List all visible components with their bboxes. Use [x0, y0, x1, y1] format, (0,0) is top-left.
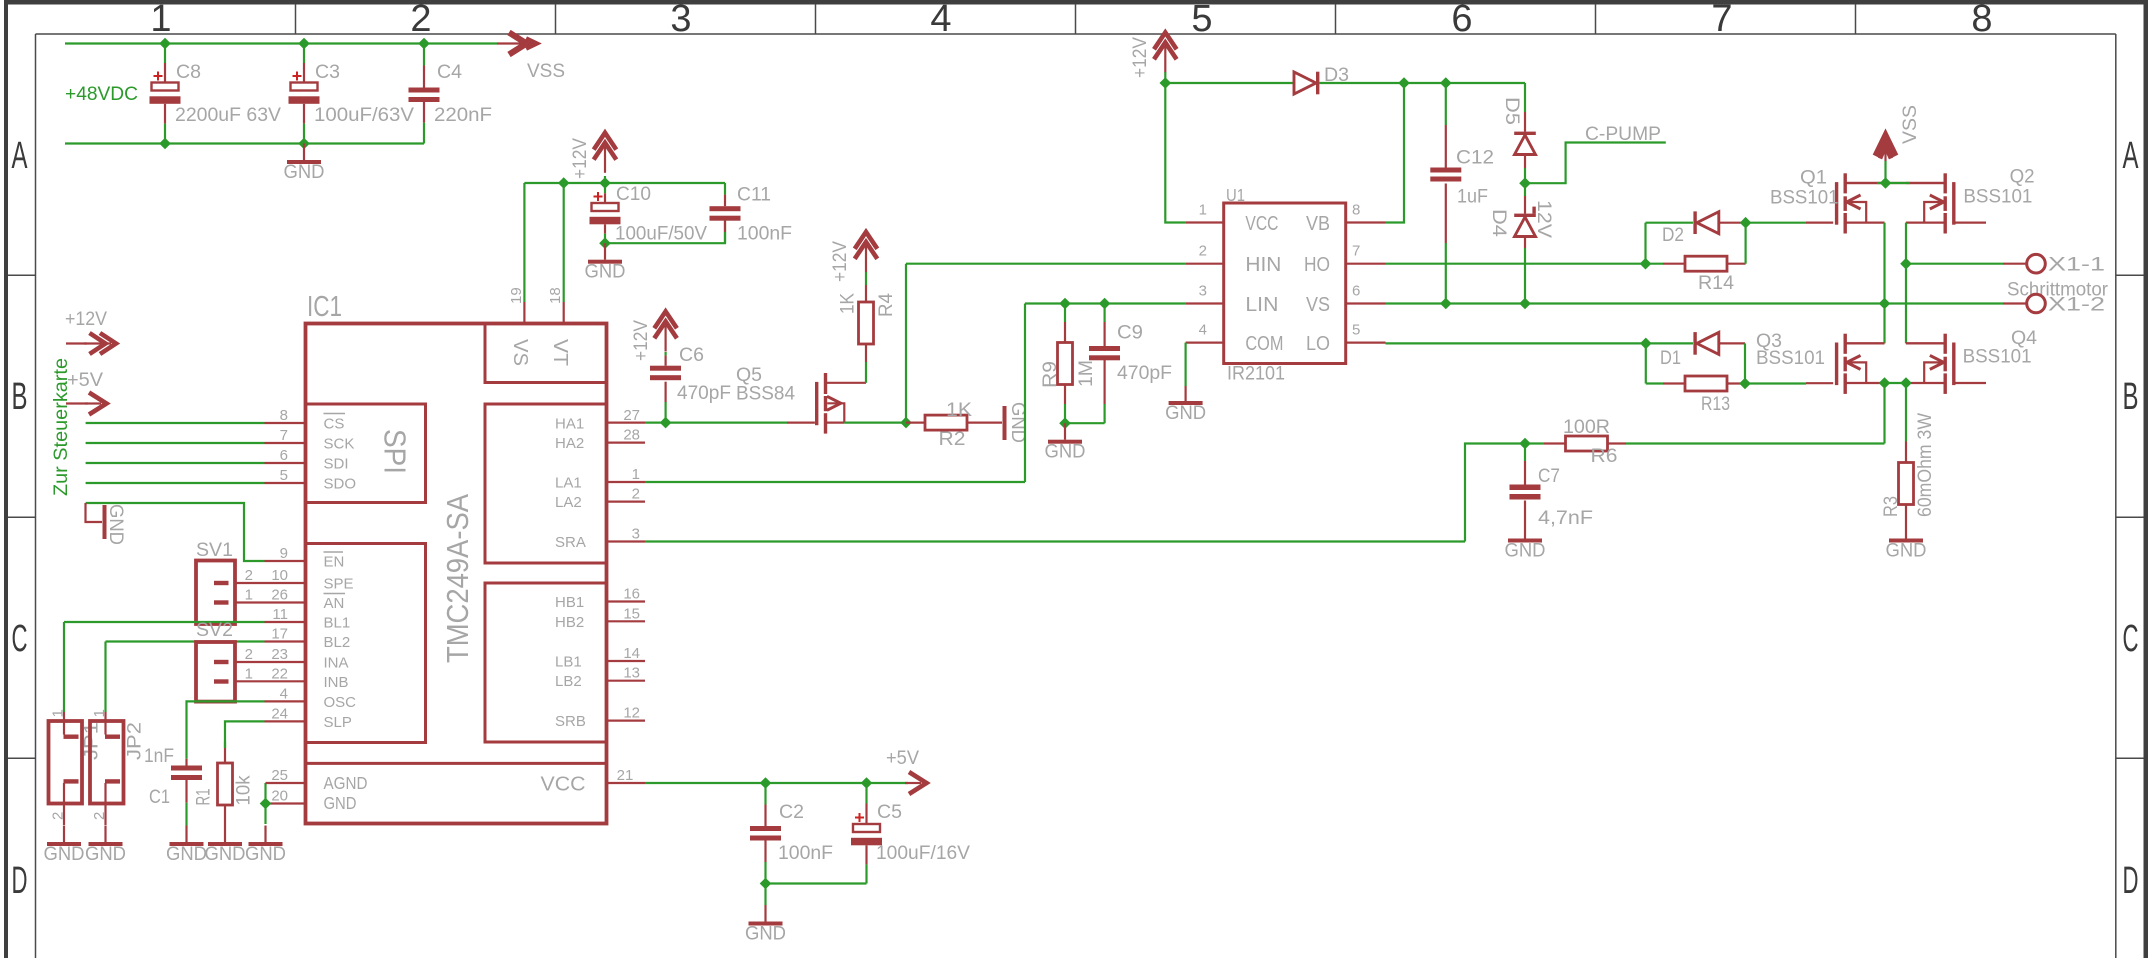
svg-text:D4: D4 [1488, 209, 1510, 237]
svg-text:2: 2 [50, 812, 67, 820]
svg-text:23: 23 [271, 646, 288, 663]
svg-text:2200uF 63V: 2200uF 63V [175, 104, 281, 126]
wire Q5 source to R2 [844, 422, 906, 424]
capacitor C3 [303, 44, 305, 64]
wire SLP route [225, 721, 265, 748]
svg-text:24: 24 [271, 705, 288, 722]
pin EN stub [265, 560, 306, 562]
svg-text:GND: GND [745, 923, 786, 945]
wire COM to GND [1184, 343, 1186, 386]
svg-text:22: 22 [271, 665, 288, 682]
svg-text:R13: R13 [1701, 393, 1730, 415]
junction C2 bottom [760, 878, 772, 890]
svg-text:3: 3 [632, 526, 640, 543]
wire C2-C5 bottom [766, 882, 867, 884]
pin HB1 stub [607, 600, 646, 602]
svg-text:+5V: +5V [67, 369, 103, 391]
svg-text:TMC249A-SA: TMC249A-SA [440, 494, 475, 663]
svg-text:4: 4 [280, 685, 288, 702]
svg-text:HA2: HA2 [555, 435, 584, 452]
wire R3 top [1905, 383, 1907, 442]
svg-text:1K: 1K [946, 399, 972, 421]
svg-text:+12V: +12V [829, 241, 851, 282]
svg-text:GND: GND [205, 843, 246, 865]
wire INA [237, 661, 306, 663]
diode D3 [1294, 72, 1316, 94]
pin SDI stub [265, 462, 306, 464]
wire INB [237, 680, 306, 682]
ground GND rotated (R2) [1003, 406, 1007, 440]
capacitor C7 [1524, 444, 1526, 462]
svg-text:BSS101: BSS101 [1963, 186, 2032, 208]
svg-text:28: 28 [623, 427, 640, 444]
svg-text:SRA: SRA [555, 534, 586, 551]
svg-text:INA: INA [324, 655, 349, 672]
svg-text:SV1: SV1 [196, 539, 233, 561]
svg-text:+12V: +12V [569, 138, 591, 179]
resistor R13 [1646, 382, 1663, 384]
svg-text:7: 7 [1711, 0, 1732, 40]
ground GND rotated (left) [86, 503, 103, 522]
wire SCK signal [86, 442, 265, 444]
resistor R1 [224, 742, 226, 749]
capacitor C6 (to HA1) [664, 352, 666, 355]
wire D2 right link [1719, 222, 1746, 224]
svg-text:R6: R6 [1591, 445, 1618, 467]
svg-text:+12V: +12V [630, 320, 652, 361]
svg-text:7: 7 [280, 427, 288, 444]
junction VSS node [1880, 177, 1892, 189]
pin LO stub [1346, 342, 1386, 344]
svg-text:+48VDC: +48VDC [65, 83, 138, 105]
svg-text:B: B [2123, 376, 2139, 418]
wire SDO signal [86, 482, 265, 484]
pin LA2 stub [607, 501, 646, 503]
junction C12 bottom [1440, 298, 1452, 310]
ground GND below COM [1184, 386, 1186, 401]
svg-text:VB: VB [1306, 213, 1330, 235]
svg-text:BL2: BL2 [324, 634, 351, 651]
svg-text:100nF: 100nF [778, 842, 833, 864]
svg-text:LB1: LB1 [555, 654, 582, 671]
junction R6 node [1519, 438, 1531, 450]
junction R9 bottom [1059, 417, 1071, 429]
connector SV1 box [196, 561, 235, 625]
svg-text:2: 2 [1199, 243, 1207, 260]
wire bottom rail (GND bus) [65, 142, 424, 144]
svg-text:220nF: 220nF [434, 104, 492, 126]
svg-text:8: 8 [280, 407, 288, 424]
pin 18 stub [563, 302, 565, 324]
svg-text:B: B [12, 376, 28, 418]
wire SRA long [645, 540, 1465, 542]
svg-text:+12V: +12V [1129, 37, 1151, 78]
transistor Q1 BSS101 [1835, 182, 1838, 225]
svg-text:100R: 100R [1563, 416, 1610, 438]
capacitor C12 [1445, 83, 1447, 125]
wire to Q1 gate [1746, 222, 1806, 224]
svg-text:12: 12 [623, 705, 640, 722]
svg-text:GND: GND [1505, 540, 1546, 562]
power +5V chevron [905, 782, 921, 784]
connector SV2 box [196, 642, 235, 702]
SV1 pin dash 1 [214, 581, 229, 585]
power +12V arrow above R4 [865, 244, 867, 272]
wire SDI signal [86, 462, 265, 464]
svg-text:2: 2 [245, 567, 253, 584]
wire Q2 source down [1905, 223, 1907, 264]
svg-text:U1: U1 [1226, 185, 1245, 205]
pin LIN stub [1186, 302, 1224, 304]
capacitor C2 [764, 783, 766, 805]
junction X1-1 node [1900, 258, 1912, 270]
svg-text:11: 11 [272, 606, 288, 623]
capacitor C5 [865, 783, 867, 804]
wire to D5 [1524, 83, 1526, 112]
ground GND below R9 [1064, 423, 1066, 440]
pin HIN stub [1186, 263, 1224, 265]
junction VT wire [558, 177, 570, 189]
svg-text:GND: GND [166, 843, 207, 865]
svg-text:26: 26 [271, 587, 288, 604]
svg-text:GND: GND [1886, 540, 1927, 562]
svg-text:R1: R1 [193, 789, 215, 806]
junction C3 bottom [298, 138, 310, 150]
diode D4 zener (points up) [1524, 183, 1526, 196]
capacitor C11 [724, 183, 726, 195]
svg-text:VSS: VSS [527, 60, 565, 82]
svg-text:1: 1 [150, 0, 171, 40]
svg-text:+12V: +12V [65, 308, 107, 330]
junction C9 top [1099, 298, 1111, 310]
svg-text:60mOhm 3W: 60mOhm 3W [1914, 412, 1936, 517]
pin HB2 stub [607, 620, 646, 622]
svg-text:4: 4 [1199, 321, 1207, 338]
svg-text:OSC: OSC [324, 694, 357, 711]
SV1 pin dash 2 [214, 600, 229, 604]
svg-text:GND: GND [44, 843, 85, 865]
svg-text:10: 10 [271, 567, 288, 584]
wire AGND/GND route [264, 783, 266, 824]
svg-text:LO: LO [1306, 333, 1330, 355]
svg-text:JP2: JP2 [124, 722, 146, 760]
connector JP1 box and pins [49, 721, 83, 804]
svg-text:1: 1 [91, 709, 108, 717]
svg-text:6: 6 [280, 447, 288, 464]
svg-text:2: 2 [245, 646, 253, 663]
diode D2 (points left) [1697, 212, 1719, 234]
svg-text:18: 18 [547, 287, 564, 304]
net C-PUMP wire [1525, 143, 1666, 184]
pin VCC stub (U1) [1186, 221, 1224, 223]
wire pin19 drop [523, 183, 525, 302]
svg-text:D5: D5 [1501, 97, 1523, 125]
wire BL2 route [104, 642, 106, 713]
wire R4 top [865, 272, 867, 285]
IC U IC1 TMC249A-SA outline and sections [306, 324, 607, 824]
svg-text:14: 14 [623, 645, 640, 662]
junction C8 top [159, 38, 171, 50]
svg-text:C: C [12, 618, 28, 660]
svg-text:SV2: SV2 [196, 619, 233, 641]
wire SPE [237, 582, 306, 584]
junction D1 left [1640, 338, 1652, 350]
svg-text:C-PUMP: C-PUMP [1585, 123, 1661, 145]
svg-text:+5V: +5V [886, 747, 919, 769]
wire HO to R14 [1386, 263, 1646, 265]
svg-text:1nF: 1nF [144, 745, 174, 767]
power +12V arrow (U1) [1164, 45, 1166, 73]
wire VS long (X1-2) [1386, 302, 2004, 304]
IC U1 IR2101 box [1224, 203, 1346, 364]
svg-text:HB1: HB1 [555, 594, 584, 611]
net label VSS arrow (top rail) [509, 33, 527, 55]
junction C3 top [298, 38, 310, 50]
pin VCC stub [607, 782, 646, 784]
svg-text:BSS101: BSS101 [1963, 346, 2032, 368]
svg-text:GND: GND [284, 161, 325, 183]
ground GND below C10 [604, 243, 606, 260]
wire HIN riser [905, 264, 907, 423]
svg-text:2: 2 [410, 0, 431, 40]
svg-text:3: 3 [1199, 282, 1207, 299]
svg-text:VS: VS [1306, 294, 1330, 316]
junction X1-2 node [1879, 298, 1891, 310]
wire VCC to +5V [645, 782, 908, 784]
transistor Q3 BSS101 [1835, 343, 1838, 386]
svg-text:R4: R4 [875, 293, 897, 317]
wire AN [237, 601, 306, 603]
svg-text:SCK: SCK [324, 436, 355, 453]
junction C2 top [760, 777, 772, 789]
svg-text:IR2101: IR2101 [1227, 363, 1285, 385]
svg-text:25: 25 [271, 767, 288, 784]
svg-text:C8: C8 [176, 61, 201, 83]
wire X1-2 pin stub [2003, 302, 2026, 304]
svg-text:10k: 10k [233, 775, 255, 805]
svg-text:1: 1 [1199, 201, 1207, 218]
svg-text:13: 13 [623, 665, 640, 682]
svg-text:GND: GND [1045, 441, 1086, 463]
svg-text:LA1: LA1 [555, 475, 582, 492]
svg-text:GND: GND [85, 843, 126, 865]
svg-text:1: 1 [50, 709, 67, 717]
pin LA1 stub [607, 481, 646, 483]
svg-text:C7: C7 [1538, 465, 1560, 487]
junction VB riser [1398, 77, 1410, 89]
ground GND below C2 [764, 884, 766, 906]
junction C12 top [1440, 77, 1452, 89]
pin SRB stub [607, 719, 646, 721]
power +5V chevron (left) [66, 402, 88, 404]
wire BL1 route [63, 622, 65, 712]
svg-text:C9: C9 [1117, 322, 1143, 344]
svg-text:BSS101: BSS101 [1756, 347, 1825, 369]
svg-text:100uF/63V: 100uF/63V [314, 104, 414, 126]
svg-text:100uF/16V: 100uF/16V [876, 842, 970, 864]
transistor Q4 BSS101 [1952, 343, 1955, 386]
wire X1-2 riser to Q3 [1883, 304, 1885, 344]
svg-text:5: 5 [280, 467, 288, 484]
overbar EN [324, 551, 344, 553]
svg-text:VCC: VCC [541, 774, 586, 796]
svg-text:R14: R14 [1698, 272, 1734, 294]
sheet frame with column and row labels [4, 0, 2148, 5]
svg-text:5: 5 [1191, 0, 1212, 40]
svg-text:1M: 1M [1075, 360, 1097, 387]
svg-text:2: 2 [632, 486, 640, 503]
transistor Q2 BSS101 [1952, 182, 1955, 225]
wire R9 top stub [1064, 304, 1066, 323]
junction D4 bottom [1519, 298, 1531, 310]
svg-text:GND: GND [105, 504, 127, 545]
wire Q4 gate stub [1954, 382, 1986, 384]
ground GND below R3 [1905, 522, 1907, 539]
capacitor C1 [185, 752, 187, 759]
transistor Q5 BSS84 [815, 382, 818, 425]
ground GND below C1 [185, 826, 187, 843]
junction C8 bottom [159, 138, 171, 150]
pin VS stub (U1) [1346, 302, 1386, 304]
svg-text:LA2: LA2 [555, 494, 582, 511]
svg-text:C11: C11 [737, 184, 771, 206]
wire LIN segment [1025, 302, 1186, 304]
svg-text:IC1: IC1 [307, 291, 342, 323]
junction C10 bottom [599, 237, 611, 249]
wire +12V to C10/C11 top rail [524, 176, 605, 183]
svg-text:SPI: SPI [378, 429, 413, 474]
svg-text:27: 27 [623, 407, 640, 424]
svg-text:C10: C10 [616, 183, 651, 205]
pin SCK stub [265, 442, 306, 444]
junction R2 node [900, 417, 912, 429]
wire D2 anode-side [1646, 222, 1694, 224]
svg-text:4,7nF: 4,7nF [1538, 507, 1593, 529]
svg-text:7: 7 [1352, 243, 1360, 260]
connector X1-2 circle [2027, 294, 2046, 313]
junction C4 top [418, 38, 430, 50]
wire HA1 to Q5 gate [645, 422, 787, 424]
wire C10 top rail right [605, 182, 725, 184]
svg-text:EN: EN [324, 554, 345, 571]
pin LB1 stub [607, 660, 646, 662]
ground GND below JP2 [104, 826, 106, 843]
svg-text:HA1: HA1 [555, 416, 584, 433]
wire pin18 drop [563, 183, 565, 302]
junction C-PUMP node [1519, 177, 1531, 189]
svg-text:8: 8 [1352, 201, 1360, 218]
SV2 pin dash 1 [214, 660, 229, 664]
pin LB2 stub [607, 680, 646, 682]
capacitor C4 [423, 44, 425, 66]
svg-text:C3: C3 [315, 61, 340, 83]
wire VB riser [1386, 83, 1405, 223]
svg-text:1: 1 [632, 466, 640, 483]
svg-text:LB2: LB2 [555, 673, 582, 690]
wire D1 right link [1719, 342, 1745, 344]
junction R9 top [1059, 298, 1071, 310]
svg-text:SPE: SPE [324, 576, 354, 593]
svg-text:C12: C12 [1456, 147, 1494, 169]
wire LO to D1 [1386, 342, 1694, 344]
svg-text:HB2: HB2 [555, 614, 584, 631]
svg-text:D2: D2 [1662, 224, 1684, 246]
resistor R4 [859, 302, 874, 344]
svg-text:X1-1: X1-1 [2048, 254, 2105, 276]
wire R3 bottom [1905, 505, 1907, 522]
pin HA2 stub [607, 442, 646, 444]
svg-text:9: 9 [280, 545, 288, 562]
svg-text:C4: C4 [437, 61, 462, 83]
wire C10-C11 bottom [605, 221, 725, 244]
connector JP2 box and pins [90, 721, 124, 804]
svg-text:C: C [2123, 618, 2139, 660]
pin HA1 stub [607, 422, 646, 424]
svg-text:R3: R3 [1880, 496, 1902, 517]
svg-text:100uF/50V: 100uF/50V [615, 223, 707, 245]
diode D5 (points up) [1524, 112, 1526, 132]
svg-text:VS: VS [509, 339, 531, 366]
svg-text:Q1: Q1 [1800, 167, 1827, 189]
svg-text:16: 16 [623, 586, 640, 603]
pin SRA stub [607, 540, 646, 542]
wire EN route [86, 503, 265, 561]
svg-text:5: 5 [1352, 321, 1360, 338]
svg-text:VSS: VSS [1899, 105, 1921, 144]
svg-text:C1: C1 [149, 786, 170, 808]
svg-text:20: 20 [271, 788, 288, 805]
svg-text:19: 19 [508, 287, 525, 304]
wire LA1 to LIN riser [645, 481, 1025, 483]
junction Q3 gate node [1739, 378, 1751, 390]
svg-text:D: D [12, 860, 28, 902]
svg-text:D: D [2123, 860, 2139, 902]
resistor R14 [1646, 263, 1664, 265]
svg-text:1: 1 [245, 587, 253, 604]
junction GND pin [260, 798, 272, 810]
svg-text:BSS101: BSS101 [1770, 187, 1839, 209]
svg-text:GND: GND [585, 261, 626, 283]
wire R14 right riser [1744, 223, 1746, 264]
resistor R3 [1899, 463, 1914, 505]
svg-text:SRB: SRB [555, 713, 586, 730]
wire Q3 drain link [1847, 342, 1885, 344]
svg-text:21: 21 [617, 767, 634, 784]
svg-text:C5: C5 [877, 801, 902, 823]
wire Q4 drain link [1906, 342, 1944, 344]
ground GND below pin20 [264, 826, 266, 843]
wire sense to R6 [1883, 383, 1885, 444]
net +48VDC top rail wire [65, 42, 497, 44]
svg-text:GND: GND [1165, 402, 1206, 424]
svg-text:LIN: LIN [1245, 294, 1278, 316]
junction C5 top [861, 777, 873, 789]
pin 19 stub [523, 302, 525, 324]
svg-text:R9: R9 [1039, 361, 1061, 388]
resistor R2 [906, 422, 925, 424]
svg-text:BL1: BL1 [324, 615, 351, 632]
svg-text:BSS84: BSS84 [736, 383, 795, 405]
ground GND below C3 [303, 144, 305, 161]
connector X1-1 circle [2027, 254, 2046, 273]
svg-text:12V: 12V [1533, 200, 1555, 238]
wire OSC route [187, 701, 265, 752]
power VSS arrow (drains) [1876, 136, 1896, 157]
junction R14 left [1640, 258, 1652, 270]
pin SDO stub [265, 482, 306, 484]
wire X1-1 [1906, 263, 2003, 265]
pin VB stub [1346, 221, 1386, 223]
